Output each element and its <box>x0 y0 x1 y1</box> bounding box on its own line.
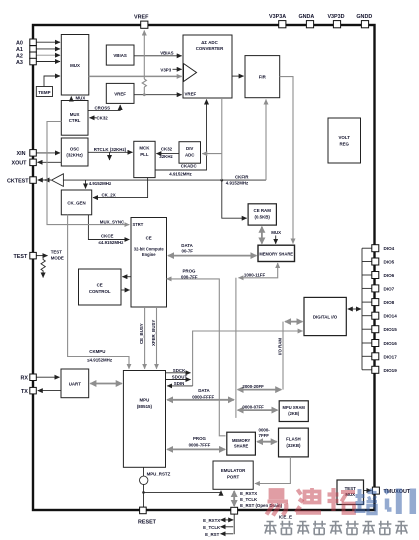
chip outer border <box>33 25 375 510</box>
svg-text:MUX: MUX <box>271 230 281 235</box>
svg-text:DIO19: DIO19 <box>384 368 398 373</box>
bus DATA 00-7F between CE and MEMORY SHARE 1 <box>168 255 256 257</box>
wire FIR output down into MEMORY SHARE 1 <box>280 77 293 244</box>
svg-text:V3P3D: V3P3D <box>327 14 344 20</box>
wire A1 to MUX <box>37 48 61 50</box>
bus UART to MPU <box>90 383 121 385</box>
wire CKADC from MCK PLL up into ADC bottom <box>155 100 206 171</box>
wire SDIN riser to MPU <box>167 385 192 387</box>
wire PROG 000-7FF from CE down to MEMORY SHARE 2 <box>167 279 226 436</box>
svg-text:MUX: MUX <box>76 95 86 100</box>
wire CROSS from MUX CTRL to VREF block <box>88 105 120 110</box>
svg-text:E_RXTX: E_RXTX <box>203 518 220 523</box>
svg-text:TX: TX <box>21 389 28 395</box>
svg-text:PROG: PROG <box>183 268 197 273</box>
wire ICE_E stem below pin with E_RXTX E_TCLK E_RST arrows <box>233 514 235 534</box>
vertical data bus 1000-11FF to 0000-07FF <box>235 278 237 418</box>
svg-text:EMULATOR: EMULATOR <box>221 468 246 473</box>
wire V3P3 into ADC triangle <box>173 68 182 70</box>
bus MEMORY SHARE 2 to FLASH <box>257 441 277 443</box>
DIO bracket rail and pin stubs <box>362 248 372 370</box>
wire 4.9152MHz main line from buffer to FIR bottom riser <box>63 179 266 181</box>
svg-text:VREF: VREF <box>134 15 149 21</box>
wire TEST pin to TEST MODE <box>37 255 48 257</box>
pulldown zigzag below TEST wire <box>41 256 45 275</box>
pin V3P3D <box>333 21 340 28</box>
wire DIV ADC to MCK PLL CK32 <box>156 153 179 155</box>
pin DIO6 <box>372 272 379 279</box>
watermark big char 1: YI (red) <box>267 490 289 516</box>
wire MPU_RSTZ branch to EMULATOR PORT <box>144 491 222 493</box>
pin XOUT <box>30 159 37 166</box>
svg-text:A2: A2 <box>16 54 23 60</box>
wire MUX CTRL to MUX_SYNC into CE <box>47 122 129 225</box>
svg-text:DIO15: DIO15 <box>384 327 398 332</box>
pin DIO8 <box>372 299 379 306</box>
wire A2 to MUX <box>37 54 61 56</box>
junction dot 4.9152MHz x CKFIR <box>220 179 223 182</box>
svg-text:CE: CE <box>146 236 152 241</box>
wire MUX CTRL to MUX <box>70 97 72 101</box>
block OSC (32KHz) <box>61 138 88 166</box>
svg-text:XOUT: XOUT <box>12 161 28 167</box>
svg-text:CKFIR: CKFIR <box>235 174 249 179</box>
pin DIO7 <box>372 285 379 292</box>
svg-text:E_TCLK: E_TCLK <box>203 525 221 530</box>
svg-text:Engine: Engine <box>142 252 156 257</box>
wire I/O RAM vertical to 2000-20FF <box>282 322 284 390</box>
wire CE RAM feed elbow from 4.9152MHz junction <box>222 180 247 218</box>
svg-text:1000-11FF: 1000-11FF <box>244 273 266 278</box>
svg-text:DIO14: DIO14 <box>384 314 398 319</box>
svg-text:00-7F: 00-7F <box>182 249 194 254</box>
block DIGITAL I/O <box>304 297 346 335</box>
block CE 32-bit compute engine <box>131 218 167 308</box>
svg-text:ICE_E: ICE_E <box>279 514 292 519</box>
block CK_GEN <box>61 190 91 215</box>
wire CK_GEN bottom to CKMPU into MPU top <box>68 215 129 369</box>
svg-text:XFER_BUSY: XFER_BUSY <box>151 320 156 346</box>
svg-text:CE_BUSY: CE_BUSY <box>139 323 144 344</box>
block CE RAM (0.5KB) <box>248 204 276 225</box>
svg-text:TEMP: TEMP <box>38 90 50 95</box>
svg-text:CK_2X: CK_2X <box>102 193 116 198</box>
svg-text:GNDD: GNDD <box>356 14 372 20</box>
svg-text:CTRL: CTRL <box>69 118 81 123</box>
svg-text:A0: A0 <box>16 41 23 47</box>
block MPU (80515) <box>123 371 165 468</box>
wire MUX output to ADC triangle <box>89 75 182 77</box>
wire CKFIR riser into FIR bottom <box>265 100 267 181</box>
wire CKCE from CK_GEN bottom to CE <box>88 215 129 240</box>
svg-text:MUX_SYNC: MUX_SYNC <box>100 220 125 225</box>
svg-text:4.9152MHz: 4.9152MHz <box>89 181 112 186</box>
block MUX <box>61 35 89 96</box>
block VBIAS <box>106 45 134 65</box>
bus EMULATOR PORT to ICE_E pin <box>233 491 235 506</box>
svg-text:GNDA: GNDA <box>298 14 314 20</box>
block MEMORY SHARE 2 <box>227 432 256 455</box>
svg-text:DIO4: DIO4 <box>384 246 395 251</box>
bus PROG 0000-7FFF MPU to MEMORY SHARE 2 <box>167 448 225 450</box>
svg-text:RESET: RESET <box>138 519 157 525</box>
svg-text:32-bit Compute: 32-bit Compute <box>134 247 165 252</box>
block MUX CTRL <box>61 101 88 136</box>
svg-text:RTCLK (32KHz): RTCLK (32KHz) <box>94 147 127 152</box>
block EMULATOR PORT <box>213 461 253 489</box>
svg-text:SHARE: SHARE <box>234 444 249 449</box>
svg-text:CE RAM: CE RAM <box>254 208 272 213</box>
watermark big char 4: PEI (blue) <box>355 489 378 514</box>
svg-text:RX: RX <box>21 376 29 382</box>
wire SDCK/SDOUT/SDIN riser and bundle to DIGITAL I/O <box>193 331 303 386</box>
svg-text:SDCK: SDCK <box>173 368 186 373</box>
block FLASH (32KB) <box>279 428 309 457</box>
svg-text:CKADC: CKADC <box>181 163 198 168</box>
svg-text:CK32: CK32 <box>97 116 109 121</box>
pin RX <box>30 374 37 381</box>
wire CE CONTROL to CE <box>121 289 130 291</box>
bus 0000-07FF data bus to MPU XRAM <box>238 409 278 411</box>
svg-text:VREF: VREF <box>114 92 126 97</box>
pin A2 <box>30 52 37 59</box>
pin XIN <box>30 150 37 157</box>
svg-text:DIO16: DIO16 <box>384 341 398 346</box>
svg-text:DIO7: DIO7 <box>384 286 395 291</box>
pin TX <box>30 387 37 394</box>
pin RESET <box>140 507 147 514</box>
svg-text:DIO6: DIO6 <box>384 273 395 278</box>
svg-text:VOLT: VOLT <box>339 135 351 140</box>
block VREF <box>106 83 134 103</box>
svg-text:A1: A1 <box>16 47 23 53</box>
pin DIO14 <box>372 312 379 319</box>
block FIR <box>245 56 280 98</box>
block CE CONTROL <box>79 269 122 305</box>
wire ADC to FIR <box>232 75 244 77</box>
bus CE RAM to MEMORY SHARE 1 vertical <box>261 227 263 244</box>
pin DIO15 <box>372 326 379 333</box>
svg-text:32KHz: 32KHz <box>159 154 173 159</box>
svg-text:DATA: DATA <box>181 243 193 248</box>
pin CKTEST <box>30 177 37 184</box>
pin TEST <box>30 252 37 259</box>
wire TEST MUX to TMUXOUT pin <box>364 490 372 492</box>
wire OSC to XOUT <box>38 161 62 163</box>
svg-text:MEMORY SHARE: MEMORY SHARE <box>259 252 293 257</box>
block MCK PLL <box>134 141 155 177</box>
svg-text:REG: REG <box>339 142 349 147</box>
wire A3 to MUX <box>37 61 61 63</box>
svg-text:4.9152MHz: 4.9152MHz <box>169 171 192 176</box>
svg-text:CK_GEN: CK_GEN <box>67 201 85 206</box>
svg-text:CKTEST: CKTEST <box>7 178 29 184</box>
svg-text:(0.5KB): (0.5KB) <box>255 215 271 220</box>
svg-text:(2KB): (2KB) <box>288 411 300 416</box>
pin V3P3A <box>279 21 286 28</box>
svg-text:TEST: TEST <box>51 250 63 255</box>
svg-text:E_RXTX: E_RXTX <box>240 491 257 496</box>
svg-text:DIO8: DIO8 <box>384 300 395 305</box>
watermark big char 3: TUO (red) <box>328 488 356 513</box>
pin DIO17 <box>372 353 379 360</box>
svg-text:ΔΣ ADC: ΔΣ ADC <box>201 40 218 45</box>
wire CE_BUSY from CE to MPU <box>144 307 146 369</box>
wire FLASH bottom to EMULATOR PORT <box>255 457 291 484</box>
svg-text:V3P3: V3P3 <box>160 68 171 73</box>
svg-text:CKMPU: CKMPU <box>89 349 105 354</box>
svg-text:(32KB): (32KB) <box>286 443 301 448</box>
bus DATA 0000-FFFF MPU to data bus <box>167 399 234 401</box>
block UART <box>61 369 89 398</box>
svg-text:CONVERTER: CONVERTER <box>196 46 224 51</box>
svg-text:MPU XRAM: MPU XRAM <box>283 405 306 410</box>
svg-text:MPU: MPU <box>140 398 150 403</box>
svg-text:CK32: CK32 <box>161 147 173 152</box>
svg-text:DIO17: DIO17 <box>384 354 398 359</box>
svg-text:PROG: PROG <box>193 436 207 441</box>
svg-text:DIV: DIV <box>186 146 193 151</box>
wire RX to UART <box>37 376 60 378</box>
pin A0 <box>30 39 37 46</box>
svg-text:000-7FF: 000-7FF <box>181 274 198 279</box>
wire XFER_BUSY from CE to MPU <box>156 307 158 369</box>
bus 2000-20FF data bus to I/O RAM line <box>238 389 282 391</box>
wire CK_2X from MCK PLL to CK_GEN <box>93 178 148 198</box>
svg-text:≤4.9152MHz: ≤4.9152MHz <box>99 240 125 245</box>
svg-text:7FFF: 7FFF <box>259 433 270 438</box>
pin TMUXOUT <box>372 487 379 494</box>
block DIV ADC <box>179 142 201 164</box>
svg-text:TEST: TEST <box>14 254 28 260</box>
svg-text:SDIN: SDIN <box>174 381 185 386</box>
svg-text:MUX: MUX <box>70 63 80 68</box>
svg-text:DATA: DATA <box>198 388 210 393</box>
bus DIGITAL I/O to I/O RAM vertical <box>285 321 302 323</box>
svg-text:FLASH: FLASH <box>286 437 301 442</box>
pin DIO19 <box>372 366 379 373</box>
svg-text:CROSS: CROSS <box>95 105 111 110</box>
svg-text:VBIAS: VBIAS <box>113 53 126 58</box>
block delta-sigma ADC converter U-ADC <box>183 35 232 98</box>
svg-text:OSC: OSC <box>70 147 80 152</box>
wire CK32 stub into MUX CTRL <box>90 117 97 119</box>
wire ADC bottom riser to 4.9152MHz junction and DIV ADC branch <box>221 98 223 180</box>
svg-text:(32KHz): (32KHz) <box>66 153 83 158</box>
svg-text:VREF: VREF <box>185 92 197 97</box>
CKTEST buffer triangle <box>52 174 64 187</box>
svg-text:0000-07FF: 0000-07FF <box>242 405 264 410</box>
svg-text:PORT: PORT <box>227 475 240 480</box>
svg-text:XIN: XIN <box>17 151 26 157</box>
block VOLT REG <box>328 118 361 163</box>
wire RTCLK(32KHz) OSC to MCK PLL <box>88 151 133 153</box>
svg-text:≤4.9152MHz: ≤4.9152MHz <box>87 357 113 362</box>
wire CKTEST buffer to pin: double arrowheads <box>45 179 52 181</box>
pin DIO16 <box>372 340 379 347</box>
svg-text:MEMORY: MEMORY <box>232 438 251 443</box>
block TEMP <box>36 87 52 97</box>
svg-text:MCK: MCK <box>139 146 150 151</box>
pin DIO4 <box>372 245 379 252</box>
wire VBIAS to ADC <box>134 55 182 57</box>
svg-text:STRT: STRT <box>133 222 144 227</box>
wire MUX label arrow into MEMORY SHARE 1 <box>275 236 277 244</box>
pin DIO5 <box>372 258 379 265</box>
pin GNDD <box>361 21 368 28</box>
svg-text:2000-20FF: 2000-20FF <box>242 384 264 389</box>
svg-text:FIR: FIR <box>259 75 267 80</box>
watermark big char 5: XUN (blue) <box>385 489 413 515</box>
pin ICE_E <box>231 507 238 514</box>
block MPU XRAM (2KB) <box>279 401 308 422</box>
svg-text:0000-: 0000- <box>259 428 271 433</box>
svg-text:(80515): (80515) <box>137 404 153 409</box>
svg-text:A3: A3 <box>16 60 23 66</box>
block TEST MUX <box>337 480 364 505</box>
wire MPU_RSTZ from MPU bottom through bubble to RESET pin <box>143 467 145 476</box>
svg-text:E_RST: E_RST <box>205 532 219 537</box>
watermark small text row: SHE PIN HE TIAN XIAN SHE JI ZHUAN JIA (grey) <box>264 521 408 535</box>
pin GNDA <box>306 21 313 28</box>
svg-text:DIGITAL I/O: DIGITAL I/O <box>313 315 338 320</box>
svg-text:MPU_RSTZ: MPU_RSTZ <box>147 471 171 476</box>
svg-text:0000-FFFF: 0000-FFFF <box>192 394 214 399</box>
svg-text:PLL: PLL <box>140 152 149 157</box>
wire CE to CE CONTROL <box>122 276 131 278</box>
svg-text:CONTROL: CONTROL <box>89 289 111 294</box>
wire DIGITAL I/O to DIO pin bracket (both arrows) <box>348 308 361 310</box>
watermark big char 2: DI (red) <box>296 488 321 513</box>
pin VREF <box>141 21 148 28</box>
svg-text:ADC: ADC <box>185 153 195 158</box>
svg-text:0000-7FFF: 0000-7FFF <box>189 443 211 448</box>
svg-text:V3P3A: V3P3A <box>269 14 286 20</box>
svg-text:E_TCLK: E_TCLK <box>240 497 258 502</box>
wire A0 to MUX <box>37 41 61 43</box>
wire XIN to OSC <box>37 152 61 154</box>
svg-text:CE: CE <box>97 283 103 288</box>
wire TEMP to MUX <box>44 76 60 87</box>
wire 1000-11FF from MEMORY SHARE 1 to data bus <box>239 263 278 278</box>
wire SDOUT MPU to riser <box>166 379 191 381</box>
wire VREF pin vertical with break zigzag <box>143 31 145 80</box>
svg-text:UART: UART <box>69 382 82 387</box>
pin A3 <box>30 58 37 65</box>
svg-text:MODE: MODE <box>51 256 64 261</box>
comparator triangle inside ADC <box>184 64 197 82</box>
svg-text:4.9152MHz: 4.9152MHz <box>226 181 249 186</box>
wire SDCK MPU to riser <box>166 372 191 374</box>
svg-text:I/O RAM: I/O RAM <box>277 338 282 355</box>
svg-text:DIO5: DIO5 <box>384 260 395 265</box>
pin A1 <box>30 46 37 53</box>
svg-text:MUX: MUX <box>70 112 80 117</box>
wire VREF block to ADC <box>134 94 182 96</box>
svg-text:VBIAS: VBIAS <box>160 51 173 56</box>
svg-text:SDOUT: SDOUT <box>172 375 188 380</box>
wire RTCLK down stub <box>109 152 111 160</box>
block MEMORY SHARE 1 <box>258 245 295 261</box>
svg-text:CKCE: CKCE <box>101 234 114 239</box>
wire UART to TX <box>38 390 61 392</box>
wire branch down into CK_GEN top <box>85 180 87 188</box>
